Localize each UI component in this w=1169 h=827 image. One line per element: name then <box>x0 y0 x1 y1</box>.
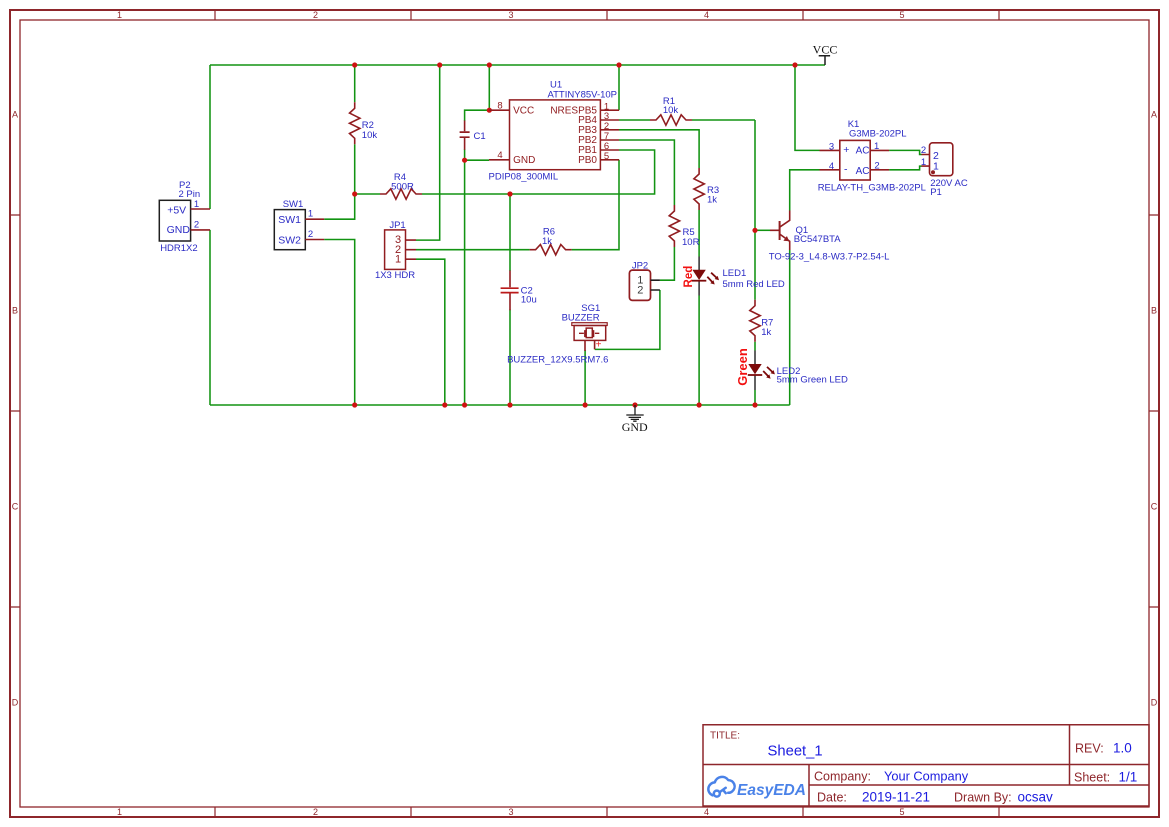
svg-text:-: - <box>844 163 848 175</box>
svg-text:+: + <box>596 340 602 351</box>
svg-text:Drawn By:: Drawn By: <box>954 791 1012 805</box>
svg-text:3: 3 <box>508 10 513 20</box>
wire R2 branch vertical <box>354 65 356 194</box>
svg-text:JP2: JP2 <box>632 260 648 271</box>
wire P2 pin2 to ground rail <box>209 230 211 405</box>
JP2 pin stubs 1,2 <box>651 280 660 290</box>
svg-text:2: 2 <box>874 161 879 172</box>
svg-text:G3MB-202PL: G3MB-202PL <box>849 128 907 139</box>
wire R4 net horizontal / PB1 <box>355 150 655 194</box>
resistor R5 <box>669 205 679 247</box>
capacitor C1 <box>464 121 466 150</box>
svg-text:VCC: VCC <box>513 106 534 117</box>
svg-text:AC: AC <box>856 166 870 177</box>
switch block SW1 <box>274 210 305 250</box>
svg-text:A: A <box>1151 110 1157 120</box>
svg-text:1: 1 <box>921 157 926 168</box>
P2 pin 1 stub <box>191 208 210 210</box>
svg-text:GND: GND <box>622 420 648 434</box>
LED1 emission arrows <box>707 273 716 282</box>
wire JP1 pin2 to R6 to PB0 <box>416 160 619 250</box>
svg-text:Sheet_1: Sheet_1 <box>768 744 823 760</box>
svg-text:AC: AC <box>856 145 870 156</box>
SG1 pin leads <box>585 341 595 352</box>
P1 pin1 marker <box>931 170 935 174</box>
svg-text:P1: P1 <box>930 187 942 198</box>
title block frame <box>703 725 1149 806</box>
svg-text:1: 1 <box>194 199 199 210</box>
svg-text:D: D <box>1151 698 1158 708</box>
wire PB2 to R5 to JP2 pin1 <box>619 140 674 280</box>
junction buzzer/GND rail <box>583 402 588 407</box>
LED1 leads <box>698 257 700 296</box>
junction R2/R4/SW1 <box>352 191 357 196</box>
svg-text:1/1: 1/1 <box>1119 770 1138 785</box>
power flag VCC <box>819 56 830 65</box>
junction C1 branch/GND rail <box>462 402 467 407</box>
svg-text:5mm Red LED: 5mm Red LED <box>723 279 785 290</box>
junction C2 tap <box>507 191 512 196</box>
connector JP2 <box>629 270 650 300</box>
resistor R2 <box>350 102 360 144</box>
junction JP1.3/VCC <box>437 62 442 67</box>
svg-text:BC547BTA: BC547BTA <box>794 234 841 245</box>
junction Q1 base tap <box>752 228 757 233</box>
wire SW1 pin1 to R4 junction <box>324 194 355 219</box>
LED2 emission arrows <box>763 367 772 377</box>
svg-text:10u: 10u <box>521 294 537 305</box>
svg-text:5: 5 <box>899 807 904 817</box>
wire PB4 through R1 to Q1 base column <box>619 120 755 405</box>
svg-text:B: B <box>1151 306 1157 316</box>
svg-text:JP1: JP1 <box>389 220 405 231</box>
svg-text:Sheet:: Sheet: <box>1074 771 1110 785</box>
wire VCC to JP1 pin3 <box>416 65 440 240</box>
svg-text:2: 2 <box>921 145 926 156</box>
svg-text:PB0: PB0 <box>578 155 597 166</box>
JP1 pin stubs 3,2,1 <box>406 240 417 259</box>
svg-text:Date:: Date: <box>817 791 847 805</box>
junction U1 VCC <box>487 62 492 67</box>
svg-text:2: 2 <box>313 10 318 20</box>
svg-text:4: 4 <box>497 150 502 161</box>
relay K1 body <box>840 140 870 180</box>
svg-text:SW2: SW2 <box>278 235 301 247</box>
wire left vertical to P2 pin1 <box>209 65 211 209</box>
svg-text:BUZZER: BUZZER <box>562 312 600 323</box>
wire GND bottom rail <box>210 404 790 406</box>
wire buzzer minus to ground rail <box>584 350 586 405</box>
svg-text:1: 1 <box>395 253 401 265</box>
P2 pin 2 stub <box>191 229 210 231</box>
svg-text:1: 1 <box>117 10 122 20</box>
svg-text:+5V: +5V <box>167 204 186 216</box>
wire C2 branch <box>509 194 511 405</box>
svg-text:Green: Green <box>735 348 750 386</box>
connector P1 body <box>930 143 953 176</box>
K1 pin stubs <box>820 150 890 169</box>
svg-text:1: 1 <box>308 209 313 220</box>
svg-text:TITLE:: TITLE: <box>710 731 740 742</box>
svg-text:500R: 500R <box>391 182 414 193</box>
wire relay pin2 to P1 pin1 <box>889 166 921 170</box>
svg-text:4: 4 <box>704 807 709 817</box>
svg-text:10k: 10k <box>362 130 378 141</box>
ground symbol GND <box>626 405 643 421</box>
U1 left pin stubs 8,4 <box>489 110 510 160</box>
svg-text:2019-11-21: 2019-11-21 <box>862 790 930 805</box>
wire VCC to U1 pin8 and C1 <box>465 65 490 405</box>
transistor Q1 <box>779 221 781 240</box>
buzzer SG1 <box>572 323 607 326</box>
junction C1/U1 GND <box>462 158 467 163</box>
LED2 leads <box>754 351 756 391</box>
svg-text:Company:: Company: <box>814 770 871 784</box>
wire Q1 base tap <box>755 229 770 231</box>
svg-text:LED1: LED1 <box>723 268 747 279</box>
P1 pin stubs <box>922 155 930 167</box>
svg-text:RELAY-TH_G3MB-202PL: RELAY-TH_G3MB-202PL <box>818 182 926 193</box>
svg-text:VCC: VCC <box>813 42 838 56</box>
wire VCC top rail <box>210 64 825 66</box>
svg-text:4: 4 <box>704 10 709 20</box>
LED2 diode <box>748 364 761 374</box>
svg-text:1k: 1k <box>542 236 552 247</box>
svg-text:ATTINY85V-10P: ATTINY85V-10P <box>548 90 618 101</box>
wire JP2 pin2 to buzzer plus <box>595 290 660 349</box>
junction SW2/GND rail <box>352 402 357 407</box>
svg-text:1k: 1k <box>707 195 717 206</box>
svg-text:Red: Red <box>683 266 695 288</box>
wire relay pin1 to P1 pin2 <box>889 150 921 154</box>
SW1 pin 1 stub <box>305 218 324 220</box>
wire JP1 pin1 to ground rail <box>416 259 445 405</box>
IC U1 body <box>510 100 601 170</box>
junction relay VCC <box>792 62 797 67</box>
resistor R6 <box>530 245 572 255</box>
svg-text:C: C <box>12 502 19 512</box>
junction R2/VCC <box>352 62 357 67</box>
svg-text:Your Company: Your Company <box>884 769 969 784</box>
junction LED2/GND rail <box>752 402 757 407</box>
svg-text:2: 2 <box>308 229 313 240</box>
svg-text:ocsav: ocsav <box>1018 790 1054 805</box>
svg-text:C: C <box>1151 502 1158 512</box>
svg-text:2 Pin: 2 Pin <box>179 189 201 200</box>
svg-text:SW1: SW1 <box>283 199 304 210</box>
EasyEDA logo <box>708 777 734 797</box>
svg-text:GND: GND <box>513 155 535 166</box>
svg-text:10R: 10R <box>682 237 700 248</box>
SG1 crystal symbol <box>579 330 599 337</box>
svg-text:2: 2 <box>194 220 199 231</box>
svg-text:PDIP08_300MIL: PDIP08_300MIL <box>489 172 559 183</box>
svg-text:1: 1 <box>933 161 939 173</box>
wire relay pin4 to Q1 collector <box>790 170 820 211</box>
svg-text:BUZZER_12X9.5RM7.6: BUZZER_12X9.5RM7.6 <box>507 355 608 366</box>
svg-text:GND: GND <box>167 224 191 236</box>
svg-text:1.0: 1.0 <box>1113 741 1132 756</box>
svg-text:1: 1 <box>117 807 122 817</box>
svg-text:REV:: REV: <box>1075 742 1104 756</box>
svg-text:5: 5 <box>604 151 609 162</box>
wire SW2 pin2 to ground rail <box>324 240 355 406</box>
svg-text:2: 2 <box>313 807 318 817</box>
resistor R4 <box>380 189 422 199</box>
wire U1 pin1 to VCC rail <box>618 65 620 110</box>
resistor R1 <box>650 115 692 125</box>
U1 right pin stubs 1,3,2,7,6,5 <box>600 110 619 160</box>
svg-text:10k: 10k <box>663 105 679 116</box>
wire Q1 emitter to ground rail <box>789 250 791 405</box>
svg-text:2: 2 <box>637 285 643 297</box>
svg-text:8: 8 <box>497 101 502 112</box>
svg-text:EasyEDA: EasyEDA <box>737 782 806 799</box>
svg-text:5: 5 <box>899 10 904 20</box>
svg-text:5mm Green LED: 5mm Green LED <box>777 375 848 386</box>
junction U1 pin1/VCC <box>616 62 621 67</box>
svg-text:1: 1 <box>874 141 879 152</box>
svg-text:3: 3 <box>508 807 513 817</box>
svg-text:3: 3 <box>829 142 834 153</box>
connector P2 <box>159 200 190 241</box>
svg-text:1X3 HDR: 1X3 HDR <box>375 270 415 281</box>
wire VCC to relay pin3 <box>795 65 820 150</box>
LED1 diode <box>692 270 705 280</box>
wire PB3 to R3 to LED1 <box>619 130 699 405</box>
capacitor C2 <box>509 271 511 311</box>
svg-text:C1: C1 <box>474 131 486 142</box>
junction LED1/GND rail <box>697 402 702 407</box>
svg-text:4: 4 <box>829 161 834 172</box>
svg-text:HDR1X2: HDR1X2 <box>160 243 198 254</box>
connector JP1 <box>385 230 406 270</box>
junction GND symbol <box>632 402 637 407</box>
junction C1/U1 pin8 <box>487 108 492 113</box>
svg-text:TO-92-3_L4.8-W3.7-P2.54-L: TO-92-3_L4.8-W3.7-P2.54-L <box>769 252 890 263</box>
resistor R7 <box>750 300 760 342</box>
resistor R3 <box>694 168 704 210</box>
svg-text:D: D <box>12 698 19 708</box>
svg-text:SW1: SW1 <box>278 214 301 226</box>
svg-text:B: B <box>12 306 18 316</box>
junction JP1.1/GND rail <box>442 402 447 407</box>
svg-text:1k: 1k <box>761 327 771 338</box>
svg-text:A: A <box>12 110 18 120</box>
svg-text:+: + <box>843 144 849 156</box>
SW1 pin 2 stub <box>305 239 324 241</box>
junction C2/GND rail <box>507 402 512 407</box>
